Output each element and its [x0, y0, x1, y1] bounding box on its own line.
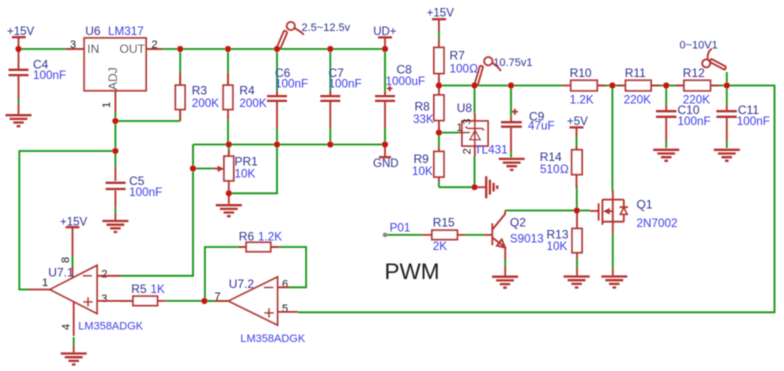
transistor Q2 S9013 — [484, 211, 544, 277]
shunt regulator U8 TL431 — [457, 101, 508, 157]
svg-text:R4: R4 — [239, 83, 255, 97]
ground below R13 — [564, 277, 590, 288]
svg-text:1: 1 — [101, 102, 113, 108]
svg-text:10K: 10K — [547, 240, 568, 253]
ground below Q2 — [492, 277, 518, 288]
svg-text:33K: 33K — [413, 113, 434, 126]
wire: R4 bottom to GND rail — [227, 117, 229, 145]
wire: R14 bottom to gate node — [576, 186, 578, 211]
wire: Q2 collector to Q1 gate — [505, 210, 590, 212]
ground below C10 — [653, 150, 679, 161]
wire: U8 cathode up to rail — [474, 86, 476, 115]
svg-text:ADJ: ADJ — [106, 67, 120, 90]
svg-text:R9: R9 — [414, 152, 430, 166]
capacitor C4 — [9, 57, 67, 114]
wire: wiper node down to U7.1 pin2 — [119, 169, 193, 276]
svg-text:100nF: 100nF — [737, 115, 770, 128]
junction dot TL431 anode — [471, 184, 477, 190]
op-amp regulator U6 LM317 — [66, 24, 163, 112]
junction dot PR1 bottom — [226, 190, 232, 196]
svg-text:5: 5 — [282, 303, 288, 315]
junction dot node A — [201, 298, 207, 304]
resistor R6 — [238, 229, 282, 251]
svg-text:2: 2 — [462, 148, 474, 154]
wire: rail R12 to corner — [710, 85, 727, 87]
wire: C7 top drop — [329, 49, 331, 95]
svg-text:1K: 1K — [151, 283, 166, 296]
wire: R7-R8 link — [438, 79, 440, 91]
junction dots GND rail — [226, 141, 388, 147]
wire: +15V to LM317 IN rail — [20, 48, 84, 50]
svg-text:U8: U8 — [457, 101, 473, 115]
transistor Q1 2N7002 — [590, 190, 677, 275]
svg-text:LM358ADGK: LM358ADGK — [78, 320, 143, 332]
wire: mid rail R7 bottom junction row — [439, 85, 562, 87]
svg-text:510: 510 — [540, 163, 560, 176]
potentiometer PR1 — [213, 150, 258, 204]
wire: C6 top drop — [276, 49, 278, 95]
wire: +15V to R7 — [438, 31, 440, 39]
svg-text:R14: R14 — [540, 150, 562, 164]
svg-text:47uF: 47uF — [528, 120, 555, 133]
resistor R3 — [175, 72, 219, 121]
svg-text:U6: U6 — [85, 24, 101, 38]
resistor R12 — [675, 66, 719, 107]
wire: Q1 source down — [612, 233, 614, 270]
wire: rail R11 to R12 — [651, 85, 684, 87]
capacitor C9 polarized — [501, 109, 555, 153]
ground below Q1 — [601, 277, 627, 288]
junction dot Q1 gate node — [574, 207, 580, 213]
svg-text:TL431: TL431 — [475, 144, 508, 157]
svg-text:R7: R7 — [450, 49, 466, 63]
svg-text:100nF: 100nF — [33, 69, 66, 82]
svg-text:R8: R8 — [415, 99, 431, 113]
capacitor C10 — [656, 103, 711, 141]
power +15V above U7.1 — [60, 216, 88, 278]
wire: feedback loop to U7.1 output — [19, 151, 115, 290]
wire: U8 anode down — [474, 156, 476, 187]
svg-text:P01: P01 — [390, 222, 411, 235]
resistor R5 — [121, 282, 166, 306]
svg-text:200K: 200K — [192, 97, 220, 110]
junction dots ADJ nodes — [112, 118, 118, 154]
svg-text:R10: R10 — [570, 66, 592, 80]
svg-text:220K: 220K — [624, 93, 652, 106]
svg-text:GND: GND — [373, 158, 399, 170]
capacitor C7 — [320, 66, 361, 128]
capacitor C6 — [267, 66, 308, 128]
wire: GND rail under caps — [193, 144, 385, 146]
wire: C11 bottom — [726, 140, 728, 148]
resistor R13 — [547, 211, 583, 276]
svg-text:Q1: Q1 — [637, 197, 653, 211]
wire: R8 bottom to TL431 ref node — [438, 125, 440, 148]
svg-text:1.2K: 1.2K — [258, 230, 282, 243]
wire: Q1 drain up to rail — [611, 86, 613, 192]
resistor R10 — [562, 66, 606, 107]
wire: rail R10 to R11 — [597, 85, 626, 87]
wire: C11 top drop — [726, 86, 728, 107]
power port UD+ — [373, 26, 397, 49]
wire: U7.1 pin3 to R5 — [119, 300, 133, 302]
svg-text:R3: R3 — [192, 83, 208, 97]
wire: C5 lower link — [114, 206, 116, 214]
wire: node A to U7.2 pin7 — [204, 300, 228, 302]
svg-text:U7.1: U7.1 — [48, 265, 74, 279]
svg-text:100nF: 100nF — [678, 115, 711, 128]
op-amp U7.2 — [214, 277, 306, 345]
junction dots top rail — [15, 46, 388, 52]
wire: P01 to R15 — [387, 234, 422, 236]
svg-text:U7.2: U7.2 — [229, 277, 255, 291]
wire: PR1 top stub — [228, 145, 230, 157]
wire: R15 to Q2 base — [465, 234, 484, 236]
junction dot R8/U8 ref — [436, 130, 442, 136]
svg-text:R11: R11 — [625, 66, 646, 80]
wire: C9 top drop — [510, 86, 512, 119]
ground below C9 — [499, 159, 525, 170]
wire: C10 bottom — [665, 140, 667, 148]
svg-text:R15: R15 — [433, 216, 455, 230]
power +15V top-right — [427, 7, 455, 47]
wire: R9 bottom to anode node — [439, 181, 475, 187]
ground below U7.1 — [61, 354, 87, 365]
svg-text:200K: 200K — [239, 97, 267, 110]
svg-text:PWM: PWM — [385, 259, 440, 284]
wire: LM317 OUT top rail to C8 — [146, 48, 385, 50]
wire: wiper node to PR1 arrow — [193, 168, 213, 170]
svg-text:10K: 10K — [235, 168, 256, 181]
net probe 10.75v1 — [475, 57, 533, 85]
power port GND — [373, 146, 399, 170]
power +15V top-left — [7, 26, 35, 69]
svg-text:2N7002: 2N7002 — [637, 217, 678, 230]
svg-text:2K: 2K — [433, 240, 448, 253]
wire: C4 lower link — [18, 97, 20, 106]
svg-text:10.75v1: 10.75v1 — [493, 57, 532, 69]
svg-text:10K: 10K — [412, 165, 433, 178]
capacitor C5 — [106, 167, 163, 220]
resistor R4 — [223, 73, 267, 119]
svg-text:R5: R5 — [131, 282, 147, 296]
svg-text:3: 3 — [101, 293, 107, 305]
resistor R9 — [412, 147, 444, 182]
wire: R13 bottom — [576, 258, 578, 268]
wire: U7.2 pin5 long output loop to top right — [298, 86, 775, 313]
svg-text:Ω: Ω — [560, 163, 569, 176]
svg-text:0~10V1: 0~10V1 — [680, 39, 718, 51]
wire: Q2 emitter down — [504, 258, 506, 267]
wire: C9 bottom to ground — [510, 152, 512, 158]
wire: R6 feedback loop — [205, 247, 306, 301]
net probe 0~10V1 — [680, 39, 727, 85]
svg-text:PR1: PR1 — [235, 154, 259, 168]
svg-text:+15V: +15V — [427, 7, 455, 19]
svg-text:UD+: UD+ — [373, 26, 397, 38]
wire: R3 bottom stub wire — [179, 110, 181, 121]
wire: C8 top drop — [384, 49, 386, 95]
pin P01 — [383, 222, 411, 238]
capacitor C11 — [716, 103, 770, 141]
ground below C5 — [102, 221, 128, 232]
wire: ref node to U8 — [439, 132, 459, 134]
svg-text:1000uF: 1000uF — [386, 75, 426, 88]
resistor R11 — [617, 66, 661, 107]
svg-text:R12: R12 — [683, 66, 705, 80]
resistor R15 — [422, 216, 465, 254]
ground below C4 — [6, 115, 32, 126]
wire: R5 to node A — [166, 300, 214, 302]
wire: pin4 ground drop — [73, 337, 75, 347]
wire: C7 bottom — [329, 127, 331, 145]
svg-text:Q2: Q2 — [510, 216, 526, 230]
junction dots mid rail — [436, 82, 730, 88]
svg-text:6: 6 — [282, 279, 288, 291]
svg-text:IN: IN — [87, 42, 99, 56]
svg-text:100nF: 100nF — [329, 77, 362, 90]
wire: PR1 bottom to GND rail riser — [229, 145, 277, 194]
ground below C11 — [714, 150, 740, 161]
wire: node down to C5 — [114, 151, 116, 167]
wire: +5V to R14 — [576, 133, 578, 150]
junction dot wiper node — [190, 165, 196, 171]
svg-text:S9013: S9013 — [510, 232, 544, 245]
svg-text:R6: R6 — [239, 229, 255, 243]
svg-text:4: 4 — [61, 324, 73, 330]
svg-text:1: 1 — [42, 277, 48, 289]
svg-text:3: 3 — [462, 119, 474, 125]
resistor R14 — [540, 146, 582, 188]
op-amp U7.1 — [29, 257, 144, 353]
power +5V — [567, 116, 588, 136]
wire: C8 bottom — [384, 127, 386, 145]
svg-text:8: 8 — [60, 257, 72, 263]
ground below PR1 — [216, 205, 242, 216]
wire: pin8 supply drop — [72, 255, 74, 268]
wire: ADJ node to R3 bottom — [115, 120, 180, 122]
wire: R4 top drop — [227, 49, 229, 85]
svg-text:100nF: 100nF — [129, 186, 162, 199]
wire: C6 bottom — [276, 127, 278, 145]
wire: GND rail left end down to wiper node — [192, 145, 194, 169]
svg-text:LM317: LM317 — [108, 25, 144, 38]
wire: R3 top drop — [179, 49, 181, 85]
svg-text:100: 100 — [450, 63, 470, 76]
svg-text:2: 2 — [101, 268, 107, 280]
svg-text:LM358ADGK: LM358ADGK — [240, 333, 305, 345]
resistor R7 — [434, 48, 478, 86]
ground rotated at TL431 anode — [478, 176, 498, 198]
svg-text:1.2K: 1.2K — [570, 93, 594, 106]
net probe 2.5~12.5v — [277, 22, 351, 49]
capacitor C8 polarized — [375, 62, 425, 128]
wire: LM317 ADJ down to node — [114, 112, 116, 151]
svg-text:2.5~12.5v: 2.5~12.5v — [302, 22, 351, 34]
svg-text:+15V: +15V — [7, 26, 35, 38]
wire: C10 top drop — [665, 86, 667, 107]
svg-text:100nF: 100nF — [275, 77, 308, 90]
resistor R8 — [413, 88, 444, 133]
svg-text:+5V: +5V — [567, 116, 588, 128]
svg-text:OUT: OUT — [120, 42, 146, 56]
